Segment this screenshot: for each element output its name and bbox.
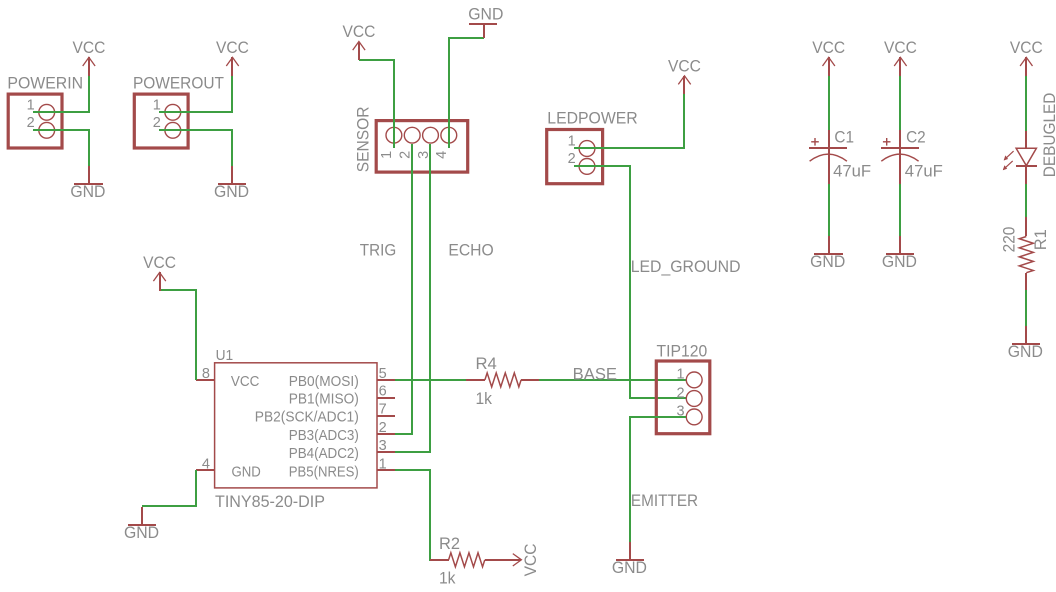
svg-text:VCC: VCC xyxy=(216,39,249,57)
label BASE xyxy=(573,366,617,384)
label LED_GROUND xyxy=(631,258,741,276)
wire C2 bottom to GND xyxy=(899,184,901,236)
supply VCC (DEBUGLED) xyxy=(1010,39,1043,76)
supply VCC (POWEROUT) xyxy=(216,39,249,76)
svg-text:47uF: 47uF xyxy=(905,162,943,180)
wire C1 bottom to GND xyxy=(828,184,830,236)
svg-text:TINY85-20-DIP: TINY85-20-DIP xyxy=(215,493,325,511)
LED DEBUGLED xyxy=(1003,93,1056,184)
ground GND (POWEROUT) xyxy=(214,166,249,201)
svg-text:PB5(NRES): PB5(NRES) xyxy=(289,463,359,480)
wire C1 top to VCC xyxy=(828,75,830,130)
svg-text:6: 6 xyxy=(379,384,387,400)
svg-text:2: 2 xyxy=(153,115,161,131)
wire U1 pin8 to VCC xyxy=(160,290,196,380)
svg-text:VCC: VCC xyxy=(342,23,375,41)
svg-text:GND: GND xyxy=(612,559,647,577)
svg-text:1k: 1k xyxy=(476,390,493,408)
wire U1 pin4 to GND xyxy=(142,470,196,506)
svg-text:POWERIN: POWERIN xyxy=(7,74,83,92)
svg-text:LEDPOWER: LEDPOWER xyxy=(547,110,637,128)
svg-text:DEBUGLED: DEBUGLED xyxy=(1041,93,1056,178)
connector POWEROUT (2-pin header) xyxy=(133,74,224,148)
svg-text:GND: GND xyxy=(214,183,249,201)
svg-text:U1: U1 xyxy=(216,348,234,364)
svg-text:2: 2 xyxy=(568,151,576,167)
wire LED cathode to R1 xyxy=(1025,184,1027,217)
svg-text:PB0(MOSI): PB0(MOSI) xyxy=(289,373,359,390)
svg-text:VCC: VCC xyxy=(231,373,260,390)
wire R1 to GND xyxy=(1025,290,1027,326)
supply VCC (SENSOR) xyxy=(342,23,375,60)
wire SENSOR pin4 to GND xyxy=(449,38,484,148)
wire TIP120 pin3 EMITTER to GND xyxy=(630,417,686,542)
svg-text:220: 220 xyxy=(1000,227,1018,253)
supply VCC (LEDPOWER) xyxy=(668,57,701,94)
svg-text:C2: C2 xyxy=(906,128,926,146)
ground GND (C2) xyxy=(882,236,917,271)
svg-text:GND: GND xyxy=(810,253,845,271)
supply VCC (POWERIN) xyxy=(72,39,105,76)
resistor R4 1k xyxy=(466,355,539,408)
svg-text:GND: GND xyxy=(70,183,105,201)
svg-text:TIP120: TIP120 xyxy=(657,343,708,361)
svg-text:2: 2 xyxy=(379,420,387,436)
supply VCC (R2, rotated right) xyxy=(512,543,540,576)
svg-text:TRIG: TRIG xyxy=(360,241,396,259)
svg-text:GND: GND xyxy=(468,6,503,24)
connector LEDPOWER (2-pin header) xyxy=(547,110,638,184)
label EMITTER xyxy=(631,492,698,510)
svg-text:VCC: VCC xyxy=(1010,39,1043,57)
wire net ECHO (SENSOR pin3 to U1 PB4) xyxy=(395,144,430,452)
svg-text:R4: R4 xyxy=(476,355,497,373)
supply VCC (C1) xyxy=(812,39,845,76)
ground GND (TIP120 emitter) xyxy=(612,542,647,577)
connector SENSOR (4-pin header) xyxy=(355,107,468,173)
wire U1 PB5 to R2 xyxy=(395,470,449,560)
wire net TRIG (SENSOR pin2 to U1 PB3) xyxy=(395,144,412,434)
svg-text:VCC: VCC xyxy=(143,254,176,272)
svg-text:PB1(MISO): PB1(MISO) xyxy=(289,390,359,407)
label ECHO xyxy=(448,241,493,259)
svg-text:1: 1 xyxy=(568,133,576,149)
svg-text:C1: C1 xyxy=(834,128,854,146)
svg-text:2: 2 xyxy=(676,385,684,401)
supply VCC (U1) xyxy=(143,254,176,291)
svg-text:VCC: VCC xyxy=(72,39,105,57)
svg-text:LED_GROUND: LED_GROUND xyxy=(631,258,741,276)
svg-text:4: 4 xyxy=(202,456,210,472)
svg-text:1: 1 xyxy=(676,367,684,383)
svg-text:GND: GND xyxy=(124,524,159,542)
svg-text:1: 1 xyxy=(153,97,161,113)
svg-text:GND: GND xyxy=(1008,343,1043,361)
svg-text:47uF: 47uF xyxy=(833,162,871,180)
capacitor C1 47uF xyxy=(809,128,871,184)
svg-text:VCC: VCC xyxy=(522,543,540,576)
wire POWERIN pin1 to VCC xyxy=(33,75,89,112)
svg-text:4: 4 xyxy=(434,151,450,159)
svg-text:VCC: VCC xyxy=(812,39,845,57)
wire LEDPOWER pin1 to VCC xyxy=(574,94,684,148)
svg-text:1k: 1k xyxy=(439,570,456,588)
supply VCC (C2) xyxy=(884,39,917,76)
wire POWEROUT pin2 to GND xyxy=(159,130,232,166)
svg-text:PB2(SCK/ADC1): PB2(SCK/ADC1) xyxy=(255,408,359,425)
svg-text:R1: R1 xyxy=(1032,229,1050,250)
ground GND (C1) xyxy=(810,236,845,271)
wire net BASE (R4 to TIP120 pin1) xyxy=(539,379,686,381)
svg-text:PB4(ADC2): PB4(ADC2) xyxy=(289,445,359,462)
ground GND (DEBUGLED) xyxy=(1008,326,1043,361)
wire POWEROUT pin1 to VCC xyxy=(159,75,232,112)
svg-text:3: 3 xyxy=(379,438,387,454)
svg-text:POWEROUT: POWEROUT xyxy=(133,74,224,92)
svg-text:EMITTER: EMITTER xyxy=(631,492,698,510)
svg-text:1: 1 xyxy=(379,151,395,159)
svg-text:BASE: BASE xyxy=(573,366,617,384)
wire LED anode to VCC xyxy=(1025,75,1027,131)
label TRIG xyxy=(360,241,396,259)
wire POWERIN pin2 to GND xyxy=(33,130,89,166)
connector POWERIN (2-pin header) xyxy=(7,74,83,148)
svg-text:8: 8 xyxy=(202,366,210,382)
ground GND (POWERIN) xyxy=(70,166,105,201)
svg-text:1: 1 xyxy=(379,457,387,473)
resistor R2 1k xyxy=(430,535,512,587)
svg-text:2: 2 xyxy=(27,115,35,131)
IC U1 TINY85-20-DIP xyxy=(196,348,395,511)
svg-text:R2: R2 xyxy=(439,535,460,553)
resistor R1 220 xyxy=(1000,217,1050,290)
ground GND (SENSOR, rotated 180) xyxy=(468,6,503,39)
connector TIP120 (3-pin) xyxy=(656,343,710,434)
svg-text:VCC: VCC xyxy=(668,57,701,75)
capacitor C2 47uF xyxy=(881,128,943,184)
svg-text:GND: GND xyxy=(232,463,261,480)
wire SENSOR pin1 to VCC xyxy=(359,60,394,148)
svg-text:VCC: VCC xyxy=(884,39,917,57)
svg-text:ECHO: ECHO xyxy=(448,241,493,259)
svg-text:7: 7 xyxy=(379,402,387,418)
ground GND (U1) xyxy=(124,507,159,542)
svg-text:SENSOR: SENSOR xyxy=(355,107,373,173)
svg-text:GND: GND xyxy=(882,253,917,271)
svg-text:PB3(ADC3): PB3(ADC3) xyxy=(289,427,359,444)
wire C2 top to VCC xyxy=(899,75,901,130)
svg-text:5: 5 xyxy=(379,366,387,382)
svg-text:1: 1 xyxy=(27,97,35,113)
wire U1 PB0 to R4 xyxy=(395,379,466,381)
wire net LED_GROUND (LEDPOWER pin2 to TIP120 pin2) xyxy=(574,166,686,398)
